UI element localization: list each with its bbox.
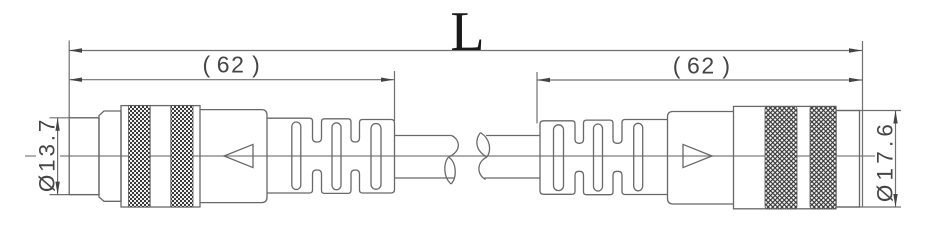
coupling nut left <box>121 106 200 207</box>
arrow 62R left <box>537 78 550 82</box>
bellows outline left <box>267 118 395 193</box>
body right <box>668 112 734 205</box>
dim line (62) left <box>69 79 394 81</box>
bellows slot 2 left <box>332 123 341 190</box>
dim line (62) right <box>537 79 862 81</box>
knurl band 1 left <box>129 106 151 207</box>
knurl band 2 right <box>810 106 836 208</box>
nut band divider lines <box>149 106 151 207</box>
arrow d17.6 up <box>893 111 897 124</box>
svg-text:Ø17.6: Ø17.6 <box>873 120 898 202</box>
bellows outline right <box>540 120 668 195</box>
arrow L left <box>69 48 82 52</box>
ext line top <box>50 117 100 119</box>
bellows slot 1 left <box>292 122 301 190</box>
bellows slot 3 left <box>371 124 381 190</box>
arrow d17.6 down <box>893 194 897 207</box>
dim line vertical <box>895 111 897 208</box>
dim line vertical <box>57 118 59 195</box>
knurl band 1 right <box>765 106 797 208</box>
triangle marker left <box>224 144 253 167</box>
dim line L <box>69 50 862 52</box>
arrow 62L right <box>381 78 394 82</box>
body left <box>200 110 267 203</box>
break squiggle left <box>449 136 459 158</box>
bellows slot 2 right <box>594 124 603 191</box>
arrow L right <box>849 48 862 52</box>
arrow 62R right <box>849 78 862 82</box>
centerline main <box>60 155 875 157</box>
knurl band 2 left <box>171 106 193 207</box>
break squiggle right <box>477 133 487 158</box>
cable left bottom <box>395 177 456 179</box>
cable left top <box>395 135 452 137</box>
extension line x=537 <box>536 72 538 124</box>
extension line x=394 <box>394 71 396 121</box>
svg-text:Ø13.7: Ø13.7 <box>35 117 60 192</box>
end cap right <box>836 111 860 208</box>
ext line bottom <box>835 206 901 208</box>
cable right bottom <box>485 177 541 179</box>
cable right top <box>486 135 540 137</box>
plug barrel left <box>69 118 99 195</box>
triangle marker right <box>683 144 712 167</box>
extension line right x=862 <box>862 41 864 207</box>
extension line left x=69 <box>68 41 70 118</box>
arrow d13.7 up <box>55 118 59 131</box>
svg-text:L: L <box>450 1 484 63</box>
arrow d13.7 down <box>55 182 59 195</box>
bellows slot 1 right <box>634 123 643 191</box>
bellows slot 3 right <box>554 125 564 191</box>
ext line bottom <box>50 194 100 196</box>
coupling nut right <box>734 106 837 208</box>
arrow 62L left <box>69 78 82 82</box>
front ring left <box>99 111 121 201</box>
centerline dash left <box>25 155 36 157</box>
ext line top <box>836 110 901 112</box>
